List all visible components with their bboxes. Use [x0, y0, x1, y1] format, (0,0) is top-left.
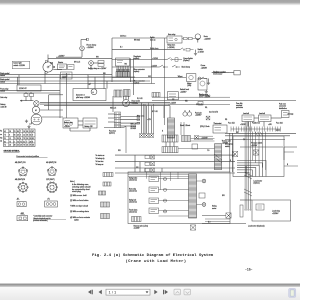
svg-text:AB (WHT)CN: AB (WHT)CN: [15, 178, 26, 181]
wire relay feed: [240, 199, 252, 201]
svg-text:Fusible link: Fusible link: [252, 122, 260, 124]
label fuse above reg: [120, 35, 140, 42]
lamp charge: [34, 101, 39, 106]
toolbar page input box: [106, 289, 150, 295]
scrollbar button right: [289, 288, 296, 297]
switch S2 key contact: [89, 61, 94, 70]
motor M2 wiper motor: [186, 74, 196, 88]
svg-text:Safety relay sw +12/24V: Safety relay sw +12/24V: [88, 67, 107, 70]
toolbar button next view disabled: [184, 289, 191, 295]
svg-text:40: 40: [32, 145, 34, 147]
connector note glyph 1: [103, 173, 113, 177]
hatch slashes: [255, 132, 263, 136]
svg-text:75: 75: [4, 135, 6, 137]
svg-text:81: 81: [32, 138, 34, 140]
wire bus row4: [115, 172, 235, 174]
svg-text:-15-: -15-: [245, 268, 253, 272]
gauge fuel unit: [183, 110, 192, 116]
connector comb c1: [162, 135, 178, 142]
svg-text:To fuse box: To fuse box: [96, 161, 104, 163]
svg-text:Fig. 2-4 (a) Schematic Diagra: Fig. 2-4 (a) Schematic Diagram of Electr…: [92, 253, 214, 258]
svg-text:B 2: B 2: [120, 47, 123, 49]
wire swing drops: [128, 155, 189, 190]
svg-text:(24V): (24V): [187, 85, 191, 87]
svg-text:+12/24V: +12/24V: [58, 55, 65, 57]
label wiper: [178, 76, 183, 78]
connector X row1 c: [150, 134, 154, 138]
label back lamp: [182, 67, 190, 69]
connector X below swing: [190, 225, 195, 230]
relay R4 horn relay: [167, 34, 182, 43]
relay R3 battery relay: [63, 118, 78, 128]
label crane lighter: [183, 57, 193, 62]
battery BT1: [31, 114, 42, 125]
connector CN rect A: [17, 202, 26, 207]
svg-text:(option): (option): [109, 132, 115, 135]
contact box pair: [93, 61, 104, 67]
wire drop mid: [45, 72, 67, 118]
label left edge rows: [0, 131, 2, 143]
label cn row3 a: [16, 199, 20, 201]
relay R2 safety relay: [61, 72, 73, 79]
switch S1 starter switch: [43, 61, 55, 74]
svg-text:69: 69: [26, 131, 28, 133]
label crane option: [201, 64, 208, 69]
label swing rows: [129, 177, 138, 214]
lamp room lamp: [80, 46, 85, 57]
fuse block: [24, 92, 34, 101]
svg-text:se: se: [0, 134, 2, 136]
wire regulator drop: [88, 38, 135, 95]
box load meter upper: [233, 136, 284, 177]
svg-text:BY 0.85: BY 0.85: [152, 111, 158, 113]
connector X row1 b: [145, 134, 149, 138]
label emergency switch: [225, 143, 233, 148]
toolbar button last page: [163, 290, 168, 295]
label engine stop: [199, 93, 211, 98]
wire load box feeds: [246, 147, 298, 177]
relay bank swing: [149, 176, 159, 214]
svg-text:+12/24V: +12/24V: [134, 228, 141, 230]
wire gauge right: [130, 102, 138, 104]
label fuse box: [109, 130, 116, 134]
svg-text:switch +12/24V: switch +12/24V: [13, 64, 25, 67]
svg-text:7: 7: [20, 131, 21, 133]
wire extra drops: [88, 75, 107, 89]
wire radiator feed: [212, 72, 229, 74]
label load meter option: [254, 179, 263, 184]
svg-text:+12/24V: +12/24V: [152, 58, 159, 60]
wire atm row: [112, 49, 180, 51]
wire bus F: [0, 92, 60, 94]
connector X col b: [145, 162, 155, 166]
svg-text:switch: switch: [0, 90, 5, 93]
junction box left: [17, 85, 41, 91]
label fuse link mid: [209, 111, 219, 114]
switch S4 crane lighter: [167, 58, 182, 62]
label blue connector 2: [134, 79, 146, 84]
svg-text:+5 ATM: +5 ATM: [198, 51, 205, 54]
wire bus row1: [115, 154, 235, 156]
label wire codes: [131, 124, 137, 130]
table fuse rating table: [4, 129, 36, 147]
svg-text:12: 12: [9, 138, 11, 140]
connector CN profile gear B: [46, 182, 57, 193]
wire relay drop: [70, 128, 90, 131]
svg-text:Load meter (Optional): Load meter (Optional): [248, 224, 265, 227]
svg-text:RL 0.85: RL 0.85: [137, 98, 143, 100]
connector tick trio: [137, 116, 140, 125]
svg-text:+12/24V: +12/24V: [151, 65, 158, 67]
hatch cable band center: [168, 118, 175, 138]
label switch horn: [150, 36, 156, 41]
svg-text:AB (WHT)CN: AB (WHT)CN: [46, 161, 57, 164]
svg-text:*) With no wiper circuit: *) With no wiper circuit: [70, 204, 88, 207]
svg-text:55: 55: [17, 138, 19, 140]
svg-text:70: 70: [23, 145, 25, 147]
wire fuse stack left: [108, 96, 115, 122]
svg-text:42: 42: [4, 131, 6, 133]
svg-text:AB (WHT) CN: AB (WHT) CN: [15, 161, 26, 164]
lamp swing a: [202, 179, 206, 183]
label crane light switch: [12, 61, 29, 69]
connector CN lower pins: [114, 90, 130, 98]
wire switch top: [48, 55, 112, 62]
svg-text:20: 20: [9, 131, 11, 133]
svg-text:B: B: [287, 164, 288, 166]
horn H1: [195, 34, 200, 43]
svg-text:overload: overload: [236, 105, 242, 107]
label hour meter: [132, 100, 141, 105]
svg-text:74: 74: [30, 145, 32, 147]
svg-text:B 2: B 2: [208, 222, 211, 224]
box mid2: [192, 144, 198, 149]
toolbar button next page: [154, 290, 157, 295]
svg-text:+12/24V: +12/24V: [201, 68, 208, 70]
svg-text:65: 65: [14, 135, 16, 137]
svg-text:51: 51: [14, 131, 16, 133]
label room lamp: [87, 45, 97, 50]
label notes block: [70, 180, 90, 222]
wire bus E: [0, 89, 60, 91]
meter hour meter: [123, 100, 130, 107]
svg-text:8: 8: [9, 135, 10, 137]
wire mid drops: [142, 103, 185, 135]
wire bus C: [0, 80, 150, 82]
connector X mid: [195, 136, 199, 140]
svg-text:circuit plug:: circuit plug:: [72, 190, 82, 193]
svg-text:B: B: [162, 131, 163, 133]
svg-text:GB 0.85: GB 0.85: [131, 126, 137, 128]
ground battery left: [25, 120, 28, 123]
label thermo unit: [222, 139, 232, 144]
label wire codes scattered: [74, 47, 280, 224]
wire battery feed: [20, 100, 34, 102]
label top row right: [228, 122, 284, 126]
wire swing right h: [159, 216, 231, 222]
wire right col: [230, 133, 233, 172]
toolbar button previous page: [99, 290, 102, 295]
wire bus A: [0, 74, 112, 76]
svg-text:56: 56: [26, 135, 28, 137]
wire right hv: [225, 133, 296, 147]
svg-text:(Crane with Load Meter): (Crane with Load Meter): [126, 259, 187, 264]
connector X row1 a: [140, 134, 144, 138]
svg-text:Starter: Starter: [58, 61, 64, 64]
label regulator: [134, 55, 142, 60]
battery BT2 box: [78, 118, 97, 128]
label diode row 2: [200, 125, 210, 128]
label swing caption: [134, 225, 149, 229]
svg-text:Harness wire (1.5m): Harness wire (1.5m): [134, 225, 149, 227]
connector CN profile gear A: [18, 182, 29, 193]
label brake pedal switch 1: [0, 72, 10, 77]
connector CN regulator: [116, 58, 130, 66]
toolbar divider: [0, 283, 300, 287]
svg-text:31: 31: [4, 138, 6, 140]
label pressure switch r: [251, 142, 262, 147]
svg-text:29: 29: [30, 138, 32, 140]
wire nested corners: [237, 161, 266, 177]
label cn row3 b: [48, 199, 51, 201]
label mid right row: [170, 100, 202, 106]
label mid v: [199, 136, 213, 139]
connector fuse stack: [115, 112, 121, 128]
wire room-lamp feed: [81, 38, 88, 46]
label battery cable: [0, 96, 7, 108]
connector X col c: [145, 168, 155, 172]
label cn row2 a: [15, 178, 26, 181]
svg-text:19: 19: [20, 145, 22, 147]
svg-text:Diode 1 Diode: Diode 1 Diode: [180, 125, 190, 127]
toolbar button previous view disabled: [174, 289, 181, 295]
svg-text:28: 28: [17, 135, 19, 137]
wire swing inner h: [159, 179, 203, 211]
connector CN profile star B: [47, 167, 57, 176]
svg-text:73: 73: [23, 138, 25, 140]
switch S3 atm: [180, 48, 194, 51]
switch S7 wiper switch: [198, 77, 207, 80]
connector X bottom right: [226, 213, 231, 218]
svg-text:16: 16: [26, 138, 28, 140]
wire backlamp row: [112, 66, 160, 68]
svg-text:+12 range: +12 range: [287, 114, 294, 116]
label fuel unit: [195, 111, 202, 116]
label load meter optional b: [248, 224, 265, 227]
svg-text:75: 75: [20, 141, 22, 143]
wire wiper row: [112, 77, 186, 79]
svg-text:16: 16: [26, 145, 28, 147]
meter A ammeter box: [73, 89, 106, 101]
label profiles header: [16, 155, 47, 158]
wire bus row2: [115, 161, 235, 163]
svg-text:(3) With no swing alarm: (3) With no swing alarm: [70, 210, 89, 213]
connector X mid2: [206, 116, 210, 120]
svg-text:+12/24V: +12/24V: [240, 124, 247, 126]
svg-text:level sensor: level sensor: [213, 73, 222, 76]
svg-text:6: 6: [32, 141, 33, 143]
relay R5 thermostat: [213, 122, 227, 133]
wire switch right: [53, 69, 62, 71]
svg-text:motor: motor: [212, 207, 217, 210]
ground wiper: [207, 79, 210, 85]
svg-text:pilot lamp +12/24V: pilot lamp +12/24V: [76, 96, 91, 99]
svg-text:72: 72: [4, 145, 6, 147]
svg-text:RW 1.25: RW 1.25: [131, 124, 137, 126]
hatch cable band swing: [189, 174, 197, 218]
wire horn feed: [112, 37, 167, 39]
relay R1 starter relay: [58, 61, 75, 69]
svg-text:38: 38: [14, 145, 16, 147]
svg-text:GB: GB: [172, 99, 174, 101]
svg-text:Load cell: Load cell: [243, 113, 250, 115]
wire drop left: [18, 75, 20, 85]
svg-text:81: 81: [4, 141, 6, 143]
connector ticks right: [231, 127, 280, 132]
wire relay vertical: [66, 84, 68, 119]
svg-text:BW 1.25: BW 1.25: [74, 62, 80, 64]
svg-text:Fuse link: Fuse link: [236, 103, 243, 105]
label horn: [204, 36, 212, 40]
label cn row1 a: [15, 161, 26, 164]
wire battery out: [40, 95, 63, 117]
wire long y100: [152, 100, 296, 102]
ground battery bottom: [27, 122, 31, 128]
svg-text:LW 0.85: LW 0.85: [131, 128, 137, 130]
sensor radiator box: [229, 71, 240, 75]
svg-text:+12/24V: +12/24V: [195, 115, 202, 117]
svg-text:18: 18: [9, 145, 11, 147]
svg-text:Relay horn: Relay horn: [167, 45, 175, 47]
svg-text:No: No: [0, 137, 2, 139]
switch S5 back lamp a: [160, 65, 169, 68]
svg-text:74: 74: [17, 141, 19, 143]
connector CN blue2: [116, 72, 130, 77]
connector note glyph 2: [103, 182, 111, 186]
box engine stop relay: [167, 92, 178, 100]
connector X col a: [145, 155, 155, 159]
svg-text:(option): (option): [134, 82, 140, 85]
label from relay: [0, 87, 8, 92]
svg-text:+12/24V: +12/24V: [64, 126, 71, 128]
wire lamp bottom: [56, 55, 82, 57]
connector comb c2: [182, 136, 191, 142]
top chrome gradient bar: [0, 0, 300, 6]
svg-text:13: 13: [30, 131, 32, 133]
wire lighter row: [112, 59, 167, 61]
connector note glyph 5: [101, 214, 110, 219]
svg-text:cable 40: cable 40: [0, 106, 6, 108]
svg-text:solenoid sw: solenoid sw: [129, 202, 138, 204]
wire feeder x164: [164, 38, 166, 125]
svg-text:(Option): (Option): [254, 182, 261, 185]
label switch atm: [198, 48, 205, 53]
svg-text:Load cell: Load cell: [259, 113, 266, 115]
label col left: [96, 154, 106, 166]
svg-text:GW 2: GW 2: [276, 130, 280, 132]
svg-text:RB: RB: [225, 119, 227, 121]
label ab2: [21, 212, 25, 215]
svg-text:Wiper: Wiper: [178, 76, 183, 78]
box load relay: [252, 200, 291, 221]
svg-text:+12/24V: +12/24V: [170, 102, 177, 104]
svg-text:12 34 5 67: 12 34 5 67: [19, 88, 27, 90]
wire staircase feeds: [252, 132, 265, 170]
label blue conn mid: [137, 115, 152, 120]
connector X press b: [253, 150, 258, 155]
relay R6 inner: [256, 204, 264, 210]
connector CN rect B: [45, 201, 58, 207]
svg-text:WB 1.25: WB 1.25: [110, 108, 116, 110]
svg-text:WL: WL: [205, 107, 208, 109]
hatch cable band right: [214, 144, 222, 170]
label blue connector 1: [134, 68, 146, 73]
label palm rest: [279, 103, 287, 110]
svg-text:29: 29: [30, 141, 32, 143]
svg-text:switch: switch: [74, 218, 79, 221]
wire load cell link: [248, 118, 282, 127]
label cn row1 b: [46, 161, 57, 164]
svg-text:9: 9: [32, 135, 33, 137]
svg-text:M: M: [35, 110, 37, 112]
svg-text:Horn relay: Horn relay: [168, 34, 176, 36]
svg-text:solenoid sw: solenoid sw: [129, 212, 138, 214]
connector comb c3: [162, 147, 178, 153]
wire bundle verticals: [244, 122, 252, 211]
label relay horn sub: [167, 45, 175, 49]
svg-text:Back lamp: Back lamp: [182, 67, 190, 69]
svg-text:GW 1.25: GW 1.25: [196, 104, 202, 106]
svg-text:(option): (option): [134, 70, 140, 73]
ground atm: [194, 50, 197, 56]
svg-text:(Option): (Option): [183, 59, 190, 62]
connector X press a: [232, 151, 237, 156]
toolbar background: [0, 287, 300, 300]
box console enclosure: [104, 127, 126, 153]
svg-text:8: 8: [14, 141, 15, 143]
svg-text:solenoid sw: solenoid sw: [129, 191, 138, 193]
wire comb feeds: [166, 139, 215, 149]
svg-text:54: 54: [17, 145, 19, 147]
svg-text:-(T)-: -(T)-: [16, 199, 20, 201]
label diode row: [180, 125, 190, 127]
svg-text:(2) With no horn button: (2) With no horn button: [70, 199, 88, 202]
svg-text:B: B: [230, 160, 231, 162]
diode bank swing: [163, 177, 167, 213]
svg-text:+12/24V: +12/24V: [180, 92, 187, 94]
label key switch: [88, 67, 107, 70]
svg-text:54: 54: [30, 135, 32, 137]
svg-text:Swing lock: Swing lock: [129, 200, 136, 202]
label load relay: [272, 210, 280, 215]
svg-text:+12/24V: +12/24V: [272, 213, 279, 215]
wire bus D: [0, 83, 155, 85]
label table caption: [4, 151, 21, 153]
label fuse link: [236, 103, 243, 109]
connector CN rect C: [17, 216, 28, 221]
svg-text:71: 71: [14, 138, 16, 140]
connector CN profile star A: [18, 167, 28, 176]
label asterisk note: [33, 214, 66, 222]
box load cell 2: [259, 113, 272, 122]
connector palm box: [282, 111, 294, 118]
wire gauge top: [124, 95, 129, 100]
label figure caption: [92, 253, 214, 264]
wire bus B: [0, 76, 112, 78]
label page number: [245, 268, 253, 272]
svg-text:solenoid sw: solenoid sw: [129, 180, 138, 182]
svg-text:RW 0.85: RW 0.85: [134, 40, 140, 42]
